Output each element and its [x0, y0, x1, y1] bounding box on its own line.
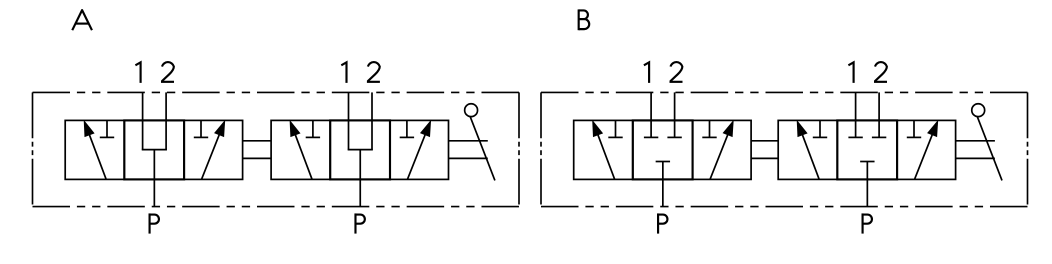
valve A2 centre position box [330, 120, 390, 179]
lever knob B [972, 104, 985, 117]
lever fork lines A [449, 141, 488, 159]
valve B2 left box blocked port T [813, 120, 827, 137]
valve A1 label P [150, 215, 159, 233]
valve B1 left position box [574, 120, 633, 179]
valve A2 port P stem [359, 150, 361, 207]
valve A2 port 2 line [371, 92, 373, 149]
valve B2 port 2 line blocked [872, 92, 886, 137]
valve A2 left position box [271, 120, 330, 179]
valve A1 left position box [65, 120, 124, 179]
valve A1 port 2 line [165, 92, 167, 149]
lever arm B [977, 117, 1002, 180]
label B [579, 10, 590, 29]
valve A1 port 1 line [142, 92, 144, 149]
lever knob A [465, 104, 478, 117]
valve A1 centre position box [124, 120, 184, 179]
valve B2 right box flow arrow [915, 120, 939, 180]
valve B2 left position box [778, 120, 837, 179]
valve B2 label 2 [874, 62, 887, 82]
valve B2 port 1 line blocked [848, 92, 862, 137]
valve B1 left box blocked port T [608, 120, 622, 137]
valve A1 label 2 [161, 62, 174, 82]
valve B2 port P stem blocked [860, 162, 874, 207]
valve A1 left box blocked port T [100, 120, 114, 137]
valve B1 port P stem blocked [656, 162, 670, 207]
mechanical link between valve A1 and A2 [243, 141, 272, 159]
enclosure A subplate chain-line box [33, 92, 520, 206]
valve A2 right position box [390, 120, 449, 179]
valve B1 right box flow arrow [710, 120, 734, 180]
valve B2 left box flow arrow [797, 120, 820, 180]
valve A1 ports junction bar [142, 149, 167, 151]
valve B2 right position box [897, 120, 956, 179]
valve A2 label P [355, 215, 364, 233]
label A [72, 10, 92, 30]
valve B1 label P [658, 215, 667, 233]
valve B2 label P [863, 215, 872, 233]
valve A2 ports junction bar [348, 149, 373, 151]
lever fork lines B [956, 141, 995, 159]
valve A1 right box blocked port T [194, 120, 208, 137]
valve A1 left box flow arrow [84, 120, 107, 180]
valve B1 port 1 line blocked [644, 92, 658, 137]
valve A2 left box flow arrow [290, 120, 313, 180]
valve B2 centre position box [837, 120, 897, 179]
valve A2 label 1 [341, 62, 346, 83]
valve B1 port 2 line blocked [667, 92, 681, 137]
valve B2 right box blocked port T [907, 120, 921, 137]
valve A1 right box flow arrow [202, 120, 226, 180]
valve B1 label 2 [670, 62, 683, 82]
valve B2 label 1 [848, 62, 853, 83]
valve A2 right box blocked port T [400, 120, 414, 137]
lever arm A [470, 117, 495, 180]
valve B1 label 1 [644, 62, 649, 83]
valve A1 label 1 [135, 62, 140, 83]
enclosure B subplate chain-line box [541, 92, 1028, 206]
valve B1 left box flow arrow [592, 120, 615, 180]
valve A1 port P stem [153, 150, 155, 207]
mechanical link between valve B1 and B2 [751, 141, 778, 159]
valve A2 port 1 line [348, 92, 350, 149]
valve A2 label 2 [367, 62, 380, 82]
valve B1 centre position box [633, 120, 693, 179]
valve A1 right position box [184, 120, 243, 179]
valve A2 right box flow arrow [407, 120, 431, 180]
valve B1 right box blocked port T [702, 120, 716, 137]
valve B1 right position box [693, 120, 752, 179]
valve A2 left box blocked port T [306, 120, 320, 137]
